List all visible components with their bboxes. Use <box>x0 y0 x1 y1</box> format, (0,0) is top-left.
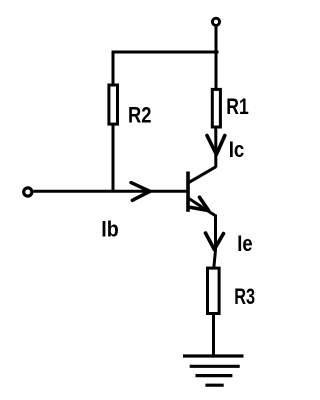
ground bar 4 <box>205 384 223 387</box>
input terminal (left) <box>24 188 32 196</box>
wire: R2 down to base node <box>112 125 115 193</box>
resistor R3 <box>208 268 220 313</box>
ground bar 3 <box>196 374 233 377</box>
transistor Q1 emitter arrow <box>191 197 209 210</box>
transistor Q1 emitter lead <box>189 198 216 216</box>
transistor Q1 base bar <box>186 172 190 212</box>
svg-text:R2: R2 <box>128 103 152 128</box>
wire: base <box>34 190 188 193</box>
wire: R1 down to collector <box>214 128 217 168</box>
svg-text:Ib: Ib <box>101 217 119 242</box>
wire: top rail <box>113 51 219 54</box>
terminal (supply, top) <box>212 18 219 25</box>
resistor R2 <box>109 85 118 124</box>
ground bar 2 <box>190 365 240 368</box>
resistor R1 <box>212 89 220 127</box>
ground bar 1 <box>183 354 244 357</box>
transistor Q1 collector lead <box>189 167 216 183</box>
svg-text:Ic: Ic <box>229 137 245 162</box>
current arrow Ie <box>206 233 224 250</box>
svg-text:R3: R3 <box>234 284 255 309</box>
current arrow Ib (on base wire) <box>131 183 150 201</box>
wire: rail down to R1 <box>215 52 218 89</box>
wire: emitter lower segment into R3 <box>214 250 216 268</box>
wire: R3 down to ground <box>212 313 215 356</box>
wire: supply terminal down to top rail <box>215 27 218 52</box>
wire: rail down to R2 <box>112 51 115 85</box>
current arrow Ic <box>207 136 225 155</box>
svg-text:R1: R1 <box>226 94 249 119</box>
svg-text:Ie: Ie <box>237 231 252 256</box>
wire: emitter down to R3 <box>214 215 217 251</box>
